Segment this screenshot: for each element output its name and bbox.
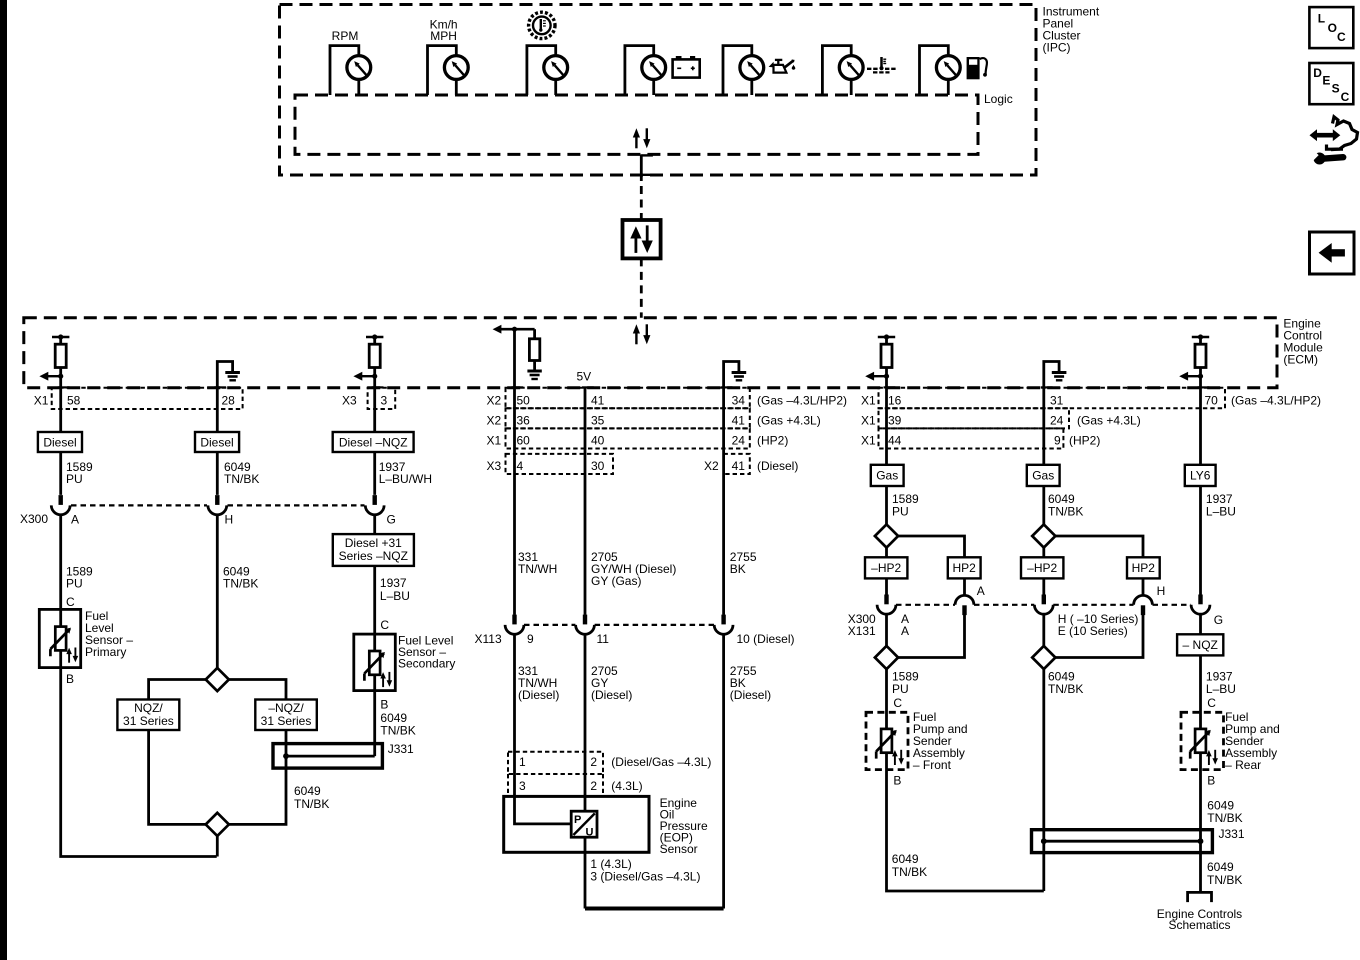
svg-text:E: E [1322, 74, 1330, 88]
svg-text:34: 34 [732, 394, 746, 408]
svg-text:6049: 6049 [294, 784, 321, 798]
connector branch pin H [1134, 595, 1153, 615]
svg-text:(IPC): (IPC) [1043, 41, 1071, 55]
svg-text:S: S [1332, 82, 1340, 96]
wire 2705 GY X113 through EOP sensor [584, 634, 587, 908]
svg-text:(HP2): (HP2) [757, 434, 788, 448]
svg-text:TN/BK: TN/BK [294, 797, 329, 811]
svg-text:4: 4 [517, 459, 524, 473]
connector X300 dashed line [71, 504, 365, 506]
wire label 1937 L-BU/WH [379, 460, 432, 486]
svg-text:TN/BK: TN/BK [380, 724, 415, 738]
Instrument Panel Cluster (IPC) dashed box [280, 5, 1037, 176]
svg-text:Diesel +31: Diesel +31 [345, 536, 402, 550]
svg-text:C: C [1341, 90, 1350, 104]
Fuel Pump and Sender Assembly Front label [913, 710, 968, 772]
svg-text:X3: X3 [487, 459, 502, 473]
ECM label [1283, 317, 1323, 367]
svg-text:(Diesel): (Diesel) [518, 688, 559, 702]
wire -HP2 branch down [885, 548, 888, 595]
svg-text:31 Series: 31 Series [123, 714, 174, 728]
option diamond B lower [1032, 646, 1055, 669]
option box Gas (column A) [871, 465, 904, 486]
option box Diesel (left column 2) [195, 432, 239, 452]
connector X113 pin 10 [714, 615, 733, 635]
wire 331 TN/WH pin50 to X113 [513, 388, 516, 615]
svg-text:A: A [901, 624, 909, 638]
Fuel Level Sensor Primary label [85, 609, 133, 659]
wire 1589 PU pin16 to Gas box [885, 388, 888, 525]
wire NQZ/31 branch left [149, 680, 207, 825]
connector X300/X131 dashed line [896, 604, 1191, 606]
fuel level sensor primary element [50, 627, 78, 663]
Engine Controls Schematics label [1157, 907, 1242, 932]
fuel level sensor primary box [39, 609, 80, 667]
wire label 1589 PU [66, 565, 93, 591]
option box HP2 (B) [1127, 557, 1160, 578]
wire label 2705 GY (Diesel) [591, 664, 632, 702]
wire label 6049 TN/BK [1207, 799, 1242, 826]
wire 1937 L-BU to fuel pump rear and down to off-page [1199, 655, 1202, 892]
ECM internal ground on pin 28 [214, 362, 240, 388]
wire label 6049 TN/BK [1048, 670, 1083, 697]
ECM pull-up resistor on pin X1-58 [39, 334, 69, 387]
transmission temperature icon (gear with thermometer) [529, 12, 555, 38]
svg-text:B: B [380, 698, 388, 712]
connector X300 pin A [51, 495, 70, 515]
svg-text:X113: X113 [475, 632, 502, 646]
IPC label [1043, 5, 1100, 55]
svg-text:70: 70 [1205, 394, 1219, 408]
svg-text:9: 9 [527, 632, 534, 646]
svg-text:(Diesel): (Diesel) [730, 688, 771, 702]
wire connector H/E to lower diamond [1042, 614, 1045, 646]
svg-text:(Gas +4.3L): (Gas +4.3L) [757, 414, 821, 428]
svg-text:(Diesel): (Diesel) [757, 459, 798, 473]
svg-text:C: C [66, 595, 75, 609]
connector X113 dashed line [524, 624, 714, 626]
svg-text:50: 50 [517, 394, 531, 408]
svg-text:28: 28 [222, 394, 236, 408]
wire 1937 L-BU to fuel level sensor secondary to splice J331 [373, 566, 376, 756]
ECM internal ground on pin 31 [1041, 362, 1067, 388]
svg-text:TN/BK: TN/BK [1207, 873, 1242, 887]
wire 2755 BK pin34 to X113 [722, 388, 725, 615]
svg-text:3: 3 [381, 394, 388, 408]
svg-text:P: P [574, 814, 581, 826]
splice J331 inner bus [1044, 840, 1201, 843]
svg-text:5V: 5V [577, 370, 592, 384]
svg-text:30: 30 [591, 459, 605, 473]
ECM pull-up resistor on pin X3-3 [353, 334, 383, 387]
svg-text:A: A [977, 584, 985, 598]
wire -NQZ/31 branch right [228, 680, 286, 825]
svg-text:– NQZ: – NQZ [1183, 638, 1218, 652]
svg-text:6049: 6049 [1207, 860, 1234, 874]
option box -HP2 (A) [865, 557, 907, 578]
svg-text:TN/WH: TN/WH [518, 562, 557, 576]
wire label 1937 L-BU [1206, 492, 1236, 519]
svg-text:O: O [1328, 21, 1337, 35]
svg-text:(4.3L): (4.3L) [611, 779, 642, 793]
wire label 1589 PU [892, 670, 919, 697]
svg-text:X131: X131 [848, 624, 876, 638]
option box Gas (column B) [1027, 465, 1060, 486]
svg-text:J331: J331 [1219, 827, 1245, 841]
svg-text:1937: 1937 [380, 576, 407, 590]
option box LY6 [1185, 465, 1216, 486]
option box -NQZ [1177, 634, 1223, 655]
svg-text:C: C [380, 618, 389, 632]
option diamond B upper [1032, 524, 1055, 547]
wire 2755 BK X113 to EOP return [722, 634, 725, 908]
wire connector G to -NQZ box [1199, 614, 1202, 634]
gauge G6 coolant temperature [822, 46, 863, 95]
svg-text:E (10 Series): E (10 Series) [1058, 624, 1128, 638]
fuel pump front sender element [876, 729, 904, 765]
svg-text:(ECM): (ECM) [1283, 353, 1318, 367]
splice J331 right box [1032, 830, 1213, 853]
gauge G7 fuel gauge [920, 46, 961, 95]
coolant temperature icon [867, 57, 896, 72]
wire 6049 TN/BK pin28 to Diesel box [216, 388, 219, 495]
connector X300 pin G [365, 495, 384, 515]
wire 6049 TN/BK X300-H down to option diamond [216, 515, 219, 668]
option diamond lower left [206, 813, 229, 836]
svg-text:HP2: HP2 [1132, 561, 1156, 575]
svg-text:PU: PU [892, 682, 909, 696]
nav icon LOC box [1309, 7, 1353, 48]
svg-text:Diesel: Diesel [200, 436, 233, 450]
svg-text:Sensor: Sensor [660, 842, 698, 856]
svg-text:X2: X2 [704, 459, 719, 473]
splice J331 inner bus [286, 755, 375, 758]
wire label 6049 TN/BK [223, 565, 258, 591]
svg-text:(Diesel/Gas –4.3L): (Diesel/Gas –4.3L) [611, 755, 711, 769]
svg-text:B: B [1207, 774, 1215, 788]
Fuel Pump and Sender Assembly Rear label [1225, 710, 1280, 772]
gauge G3 transmission temperature [527, 46, 568, 95]
svg-text:(Diesel): (Diesel) [591, 688, 632, 702]
wire 331 TN/WH X113 to EOP sensor [515, 634, 572, 824]
svg-text:24: 24 [1050, 414, 1064, 428]
fuel pump and sender rear dashed box [1181, 712, 1224, 769]
option diamond A lower [875, 646, 898, 669]
svg-text:TN/BK: TN/BK [223, 577, 258, 591]
svg-text:B: B [66, 672, 74, 686]
svg-text:RPM: RPM [332, 29, 359, 43]
svg-text:44: 44 [888, 434, 902, 448]
svg-text:TN/BK: TN/BK [1048, 505, 1083, 519]
ECM signal circuit on pin X2-50 with resistor to ground [493, 325, 542, 388]
option box NQZ/ 31 Series [117, 700, 179, 731]
svg-text:(Gas +4.3L): (Gas +4.3L) [1077, 414, 1141, 428]
svg-text:X300: X300 [20, 512, 48, 526]
battery icon [673, 56, 700, 78]
svg-text:PU: PU [892, 505, 909, 519]
wire label 1589 PU [66, 460, 93, 486]
wire 1589 PU to fuel pump front and down to jumper [887, 669, 1044, 891]
wire 1937 L-BU X300-G to Diesel +31 Series box [373, 515, 376, 534]
svg-text:3: 3 [519, 779, 526, 793]
connector row box X3 3 [368, 388, 396, 409]
mid connector row 4 X3 [506, 454, 614, 474]
Fuel Level Sensor Secondary label [398, 634, 455, 671]
Engine Oil Pressure (EOP) Sensor label [660, 796, 708, 856]
svg-text:Series –NQZ: Series –NQZ [339, 549, 408, 563]
fuel level sensor secondary element [364, 651, 392, 687]
wire label 1937 L-BU [1206, 670, 1236, 697]
svg-text:1: 1 [519, 755, 526, 769]
svg-text:40: 40 [591, 434, 605, 448]
svg-text:X2: X2 [487, 394, 502, 408]
wire label 6049 TN/BK [892, 852, 927, 879]
wire label 6049 TN/BK [294, 784, 329, 811]
EOP connector row 2 side dashes [508, 774, 603, 793]
svg-text:C: C [1207, 696, 1216, 710]
option box -NQZ/ 31 Series [255, 700, 316, 731]
svg-text:–NQZ/: –NQZ/ [268, 701, 304, 715]
svg-text:10 (Diesel): 10 (Diesel) [737, 632, 795, 646]
EOP pin labels below [590, 857, 700, 884]
svg-text:41: 41 [732, 414, 746, 428]
svg-text:3 (Diesel/Gas –4.3L): 3 (Diesel/Gas –4.3L) [590, 870, 700, 884]
svg-text:A: A [71, 513, 79, 527]
svg-text:X1: X1 [34, 394, 49, 408]
option diamond A upper [875, 524, 898, 547]
svg-text:–HP2: –HP2 [1027, 561, 1057, 575]
wire label 6049 TN/BK [224, 460, 259, 486]
gauge G2 speedometer [428, 46, 469, 95]
5V pin tick [582, 386, 594, 388]
connector pin G main [1191, 595, 1210, 615]
right connector row 2 X1 [879, 408, 1070, 428]
option box Diesel -NQZ [333, 432, 414, 452]
right connector row 3 X1 [879, 428, 1064, 448]
svg-text:6049: 6049 [892, 852, 919, 866]
splice J331 junction dot left [1041, 838, 1047, 844]
wire 1589 PU X300-A to fuel level sensor primary and down to splice [61, 515, 217, 857]
svg-text:J331: J331 [388, 742, 414, 756]
svg-text:GY (Gas): GY (Gas) [591, 574, 641, 588]
wire 1937 L-BU pin70 to LY6 box [1199, 388, 1202, 595]
svg-text:MPH: MPH [430, 29, 457, 43]
wire 2705 GY 5V to X113 [584, 388, 587, 615]
ECM pull-up resistor on pin X1-16 [865, 334, 895, 387]
splice J331 left box [273, 744, 382, 769]
svg-text:L–BU/WH: L–BU/WH [379, 472, 432, 486]
svg-text:C: C [1337, 30, 1346, 44]
wire branch A to lower diamond [898, 615, 964, 658]
wire label 331 TN/WH [518, 550, 557, 576]
svg-text:TN/BK: TN/BK [892, 865, 927, 879]
pin letters H E label [1058, 612, 1139, 638]
gauge G5 oil pressure [723, 46, 764, 95]
svg-text:24: 24 [732, 434, 746, 448]
svg-text:L: L [1318, 11, 1325, 25]
gauge G1 tachometer [330, 46, 371, 95]
serial data up/down arrows (lower) [633, 324, 651, 344]
svg-text:60: 60 [517, 434, 531, 448]
wire 1589 PU pin58 to Diesel box [59, 388, 62, 495]
serial data dashed link wire (lower) [640, 258, 643, 317]
wire 1937 L-BU/WH pin3 to Diesel-NQZ box [373, 388, 376, 495]
serial data communication box U1 [623, 220, 661, 258]
svg-text:G: G [387, 513, 396, 527]
svg-text:41: 41 [591, 394, 605, 408]
svg-text:41: 41 [732, 459, 746, 473]
mid connector row 1 X2 [506, 388, 750, 409]
fuel pump icon [967, 57, 987, 79]
connector X300 pin H [208, 495, 227, 515]
svg-text:L–BU: L–BU [1206, 505, 1236, 519]
pin letters A A [901, 612, 909, 638]
svg-text:HP2: HP2 [953, 561, 977, 575]
svg-text:31 Series: 31 Series [261, 714, 312, 728]
svg-text:36: 36 [517, 414, 531, 428]
splice J331 junction dot [283, 753, 289, 759]
svg-text:X1: X1 [861, 434, 876, 448]
connector X113 pin 9 [505, 615, 524, 635]
svg-text:– Rear: – Rear [1225, 758, 1261, 772]
svg-text:(Gas –4.3L/HP2): (Gas –4.3L/HP2) [757, 394, 847, 408]
wire HP2 branch right [898, 536, 964, 596]
EOP P/U transducer square [571, 811, 597, 838]
svg-text:58: 58 [67, 394, 81, 408]
wire connector A to lower diamond [885, 614, 888, 646]
svg-text:G: G [1214, 613, 1223, 627]
wire HP2 branch right (B) [1055, 536, 1143, 596]
nav icon wrench with arrows [1308, 117, 1358, 165]
svg-text:L–BU: L–BU [380, 589, 410, 603]
svg-text:BK: BK [730, 562, 746, 576]
wire label 2705 GY/WH GY [591, 550, 676, 588]
svg-text:Primary: Primary [85, 645, 126, 659]
wire EOP return bottom jumper [585, 907, 724, 911]
svg-text:B: B [893, 774, 901, 788]
svg-text:X3: X3 [342, 394, 357, 408]
svg-text:X2: X2 [487, 414, 502, 428]
wire label 6049 TN/BK [1048, 492, 1083, 519]
connector row X3 labels [342, 394, 388, 408]
X300 X131 label [848, 612, 876, 638]
mid connector row 2 X2 [506, 408, 750, 428]
wire label 1589 PU [892, 492, 919, 519]
wire label 6049 TN/BK [1207, 860, 1242, 887]
wire -HP2 branch down (B) [1042, 548, 1045, 595]
wire label 2755 BK (Diesel) [730, 664, 771, 702]
svg-text:H: H [1157, 584, 1166, 598]
svg-text:16: 16 [888, 394, 902, 408]
svg-text:TN/BK: TN/BK [1207, 811, 1242, 825]
Engine Oil Pressure sensor box [504, 796, 649, 852]
connector X113 pin 11 [576, 615, 595, 635]
option box Diesel +31 Series -NQZ [333, 534, 414, 566]
ECM internal ground on pin 34 [721, 362, 747, 388]
connector branch pin A [955, 595, 974, 615]
ECM pull-up resistor on pin 70 [1179, 334, 1209, 387]
wire 6049 TN/BK to splice J331 [1042, 669, 1045, 891]
svg-text:TN/BK: TN/BK [1048, 682, 1083, 696]
connector pin H/E main [1034, 595, 1053, 615]
nav icon DESC box [1309, 63, 1353, 104]
svg-text:NQZ/: NQZ/ [134, 701, 163, 715]
off-page connector to Engine Controls Schematics [1188, 892, 1212, 902]
svg-text:31: 31 [1050, 394, 1064, 408]
fuel pump and sender front dashed box [866, 712, 908, 769]
svg-text:11: 11 [597, 632, 610, 646]
serial data dashed link wire (upper) [640, 186, 643, 220]
Km/h MPH label [430, 18, 458, 43]
svg-text:2: 2 [590, 755, 597, 769]
svg-text:H: H [225, 513, 234, 527]
oil can icon [769, 60, 796, 73]
wire diamond bottom to primary sensor return [216, 836, 219, 857]
svg-text:Secondary: Secondary [398, 657, 455, 671]
serial data up/down arrows (upper) [633, 128, 651, 148]
svg-text:TN/BK: TN/BK [224, 472, 259, 486]
svg-text:X1: X1 [861, 394, 876, 408]
nav icon back arrow box [1310, 232, 1355, 274]
svg-text:Gas: Gas [1032, 469, 1054, 483]
svg-text:Diesel: Diesel [43, 436, 76, 450]
svg-text:39: 39 [888, 414, 902, 428]
svg-text:LY6: LY6 [1190, 469, 1211, 483]
option box HP2 (A) [948, 557, 981, 578]
svg-text:Gas: Gas [876, 469, 898, 483]
connector X300/X131 pin A main [877, 595, 896, 615]
svg-text:C: C [893, 696, 902, 710]
option diamond upper left [206, 668, 229, 691]
svg-text:D: D [1313, 66, 1322, 80]
svg-text:(HP2): (HP2) [1069, 434, 1100, 448]
fuel pump rear sender element [1190, 729, 1218, 765]
wire label 1937 L-BU [380, 576, 410, 603]
Logic dashed box inside IPC [295, 95, 978, 154]
svg-text:Schematics: Schematics [1168, 918, 1230, 932]
svg-text:9: 9 [1054, 434, 1061, 448]
svg-text:–HP2: –HP2 [871, 561, 901, 575]
fuel level sensor secondary box [354, 634, 396, 691]
wire label 6049 TN/BK [380, 711, 415, 738]
svg-text:35: 35 [591, 414, 605, 428]
svg-text:X1: X1 [487, 434, 502, 448]
connector row X1 labels [34, 394, 235, 408]
wire 6049 TN/BK pin31 to Gas box [1042, 388, 1045, 525]
right connector row 1 X1 [879, 388, 1226, 409]
option box -HP2 (B) [1021, 557, 1063, 578]
svg-text:Diesel –NQZ: Diesel –NQZ [339, 436, 408, 450]
svg-text:U: U [586, 827, 594, 839]
Engine Control Module (ECM) dashed box [24, 318, 1277, 388]
svg-text:PU: PU [66, 577, 83, 591]
wire label 331 TN/WH (Diesel) [518, 664, 559, 702]
mid connector row 3 X1 [506, 428, 750, 448]
svg-text:L–BU: L–BU [1206, 682, 1236, 696]
connector row box X1 58/28 [52, 388, 243, 409]
svg-text:– Front: – Front [913, 758, 952, 772]
svg-text:PU: PU [66, 472, 83, 486]
svg-text:Logic: Logic [984, 92, 1013, 106]
wire label 2755 BK [730, 550, 757, 576]
EOP connector row 1 [508, 752, 603, 774]
svg-text:X1: X1 [861, 414, 876, 428]
option box Diesel (left column 1) [38, 432, 82, 452]
mid connector row 4 X2-41 fragment [724, 454, 750, 474]
gauge G4 voltmeter [625, 46, 666, 95]
splice J331 junction dot right [1198, 838, 1204, 844]
IPC boundary connector pin [641, 154, 653, 181]
